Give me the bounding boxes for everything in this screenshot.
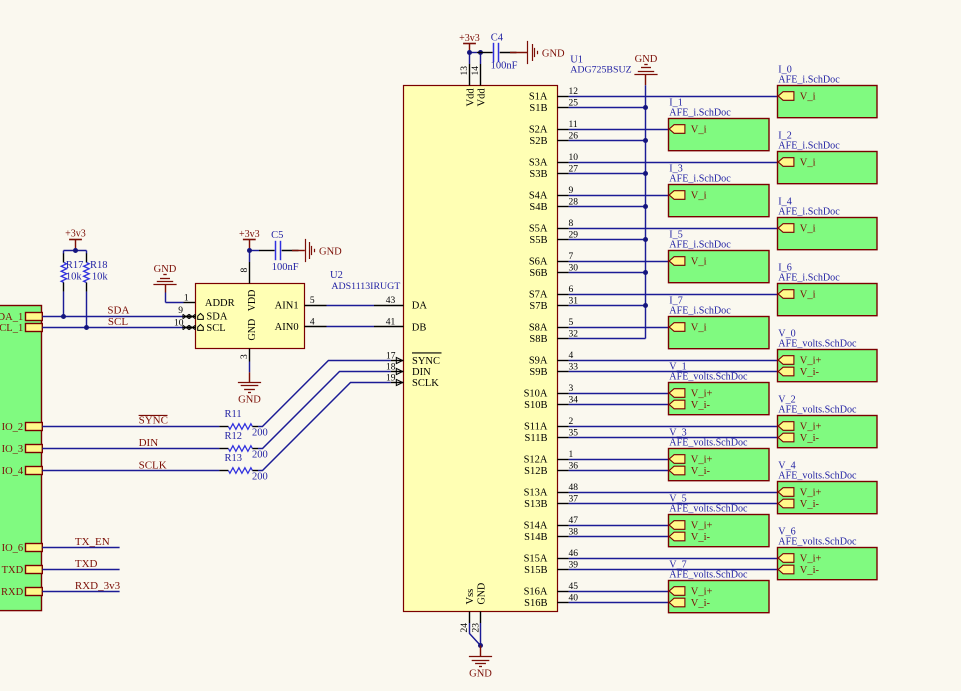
- svg-text:13: 13: [460, 66, 470, 76]
- +3v3 power port (U2): [239, 229, 260, 240]
- svg-text:GND: GND: [247, 319, 258, 341]
- svg-text:DIN: DIN: [139, 437, 159, 449]
- wire to R17 top: [63, 251, 65, 254]
- U1 pin 7 S6A: [529, 252, 574, 267]
- U1 pin 47 S14A: [524, 516, 579, 531]
- wire +3v3 to C5: [250, 250, 260, 252]
- svg-text:V_i+: V_i+: [800, 553, 822, 564]
- wire S6B to GND bus: [569, 272, 646, 274]
- resistor R12: [219, 446, 258, 452]
- svg-text:S11A: S11A: [524, 421, 548, 432]
- wire TX_EN stub: [42, 547, 119, 549]
- ground label: [469, 669, 492, 680]
- U1 pin 11 S2A: [529, 120, 578, 135]
- U1 pin 26 S2B: [529, 132, 578, 147]
- svg-text:C5: C5: [271, 230, 283, 241]
- sheet symbol V_1 (AFE_volts.SchDoc): [669, 383, 770, 415]
- svg-text:ADS1113IRUGT: ADS1113IRUGT: [331, 281, 400, 292]
- ground (U1): [469, 657, 492, 667]
- svg-text:11: 11: [569, 120, 578, 130]
- svg-text:24: 24: [460, 623, 470, 633]
- svg-text:TXD: TXD: [75, 558, 98, 570]
- svg-text:AFE_i.SchDoc: AFE_i.SchDoc: [669, 174, 731, 185]
- svg-text:8: 8: [240, 268, 250, 273]
- wire +3v3 to C4: [470, 52, 478, 54]
- sheet designator V_2: [778, 395, 795, 406]
- U1 pin 8 S5A: [529, 219, 574, 234]
- sheet port V_i of I_2: [778, 157, 815, 168]
- svg-text:S13B: S13B: [524, 499, 547, 510]
- svg-text:GND: GND: [477, 583, 488, 605]
- multiplexer U1 body: [404, 86, 558, 612]
- U1 value ADG725BSUZ: [570, 64, 631, 75]
- sheet filename AFE_i.SchDoc: [669, 174, 731, 185]
- svg-text:S7A: S7A: [529, 289, 548, 300]
- sheet filename AFE_i.SchDoc: [778, 75, 840, 86]
- svg-text:V_i+: V_i+: [691, 586, 713, 597]
- sheet filename AFE_i.SchDoc: [669, 108, 731, 119]
- svg-text:GND: GND: [635, 54, 658, 65]
- sheet port V_i of I_1: [669, 124, 706, 135]
- sheet port V_i+ of V_6: [778, 553, 821, 564]
- U2 pin 5 AIN1: [275, 296, 327, 312]
- svg-text:AFE_i.SchDoc: AFE_i.SchDoc: [778, 207, 840, 218]
- svg-text:S16B: S16B: [524, 598, 547, 609]
- svg-text:V_i: V_i: [691, 190, 707, 201]
- sheet filename AFE_volts.SchDoc: [669, 570, 748, 581]
- sheet filename AFE_volts.SchDoc: [778, 405, 857, 416]
- sheet port V_i+ of V_1: [669, 388, 712, 399]
- svg-text:S10A: S10A: [524, 388, 548, 399]
- U1 pin 33 S9B: [529, 363, 578, 378]
- junction R18/SCL: [84, 325, 89, 330]
- svg-text:V_i-: V_i-: [691, 400, 711, 411]
- svg-text:IO_4: IO_4: [2, 466, 24, 477]
- ground (ADDR, inverted earth): [153, 275, 176, 285]
- sheet designator V_0: [778, 329, 795, 340]
- U1 pin 45 S16A: [524, 582, 579, 597]
- wire GND bus vertical: [645, 85, 647, 338]
- svg-text:SDA: SDA: [107, 305, 129, 317]
- U1 pin 2 S11A: [524, 417, 574, 432]
- sheet designator V_4: [778, 461, 795, 472]
- sheet filename AFE_volts.SchDoc: [778, 537, 857, 548]
- U1 pin 6 S7A: [529, 285, 574, 300]
- ground label: [154, 264, 177, 275]
- svg-text:ADG725BSUZ: ADG725BSUZ: [570, 64, 631, 75]
- sheet port V_i of I_0: [778, 91, 815, 102]
- svg-text:V_i+: V_i+: [691, 454, 713, 465]
- wire S3B to GND bus: [569, 173, 646, 175]
- wire +3v3 stem: [75, 240, 77, 251]
- wire Vdd pin 14: [480, 53, 482, 65]
- wire TXD stub: [42, 569, 119, 571]
- svg-text:R17: R17: [66, 260, 84, 271]
- junction R17/SDA: [61, 314, 66, 319]
- sheet port V_i+ of V_2: [778, 421, 821, 432]
- wire SCLK net from IO pin: [42, 470, 219, 472]
- wire S2A to I_1 port: [569, 129, 669, 131]
- svg-text:S6B: S6B: [529, 268, 547, 279]
- wire S11A to V_2 port V_i+: [569, 426, 778, 428]
- svg-text:S16A: S16A: [524, 586, 548, 597]
- U1 pin 23 GND: [471, 583, 487, 633]
- ground (C4, sideways): [528, 41, 538, 64]
- sheet port V_i+ of V_0: [778, 355, 821, 366]
- svg-text:AIN1: AIN1: [275, 300, 299, 311]
- sheet entry IO_6: [2, 543, 43, 554]
- U1 pin 12 S1A: [529, 87, 578, 102]
- svg-text:V_i: V_i: [800, 91, 816, 102]
- wire S3A to I_2 port: [569, 162, 778, 164]
- wire SCL net: [42, 327, 183, 329]
- U2 designator: [330, 270, 343, 281]
- svg-text:IO_2: IO_2: [2, 422, 24, 433]
- U2 pin 3 GND: [240, 319, 258, 362]
- svg-text:R13: R13: [225, 453, 243, 464]
- U1 pin 43 DA: [374, 296, 427, 312]
- sheet symbol V_6 (AFE_volts.SchDoc): [778, 548, 878, 580]
- svg-text:V_i+: V_i+: [800, 487, 822, 498]
- svg-text:12: 12: [569, 87, 579, 97]
- wire RXD_3v3 stub: [42, 591, 119, 593]
- net label SYNC (overline): [139, 415, 168, 427]
- svg-text:S12A: S12A: [524, 454, 548, 465]
- wire pin24 to ground: [470, 623, 481, 646]
- svg-text:TXD: TXD: [2, 565, 24, 576]
- U2 pin 1 ADDR: [184, 294, 235, 309]
- svg-text:C4: C4: [491, 33, 504, 44]
- svg-text:AFE_i.SchDoc: AFE_i.SchDoc: [778, 141, 840, 152]
- resistor R18: [84, 253, 90, 291]
- sheet filename AFE_volts.SchDoc: [778, 471, 857, 482]
- U1 pin 31 S7B: [529, 297, 578, 312]
- R12 label: [225, 431, 268, 461]
- svg-text:DIN: DIN: [412, 367, 431, 378]
- net label SCLK: [139, 460, 167, 472]
- C4 value 100nF: [491, 60, 518, 71]
- wire S15B to V_6 port V_i-: [569, 569, 778, 571]
- sheet symbol I_0 (AFE_i.SchDoc): [778, 86, 878, 118]
- junction S2B/bus: [643, 138, 648, 143]
- svg-text:AFE_i.SchDoc: AFE_i.SchDoc: [669, 240, 731, 251]
- svg-text:S5A: S5A: [529, 223, 548, 234]
- svg-text:IO_6: IO_6: [2, 543, 24, 554]
- wire S7A to I_6 port: [569, 294, 778, 296]
- ground (top GND port for S-B bus): [634, 65, 657, 75]
- sheet entry IO_2: [2, 422, 43, 433]
- sheet entry TXD: [2, 565, 43, 576]
- sheet designator I_1: [669, 98, 682, 109]
- svg-text:1: 1: [184, 294, 189, 304]
- wire S12A to V_3 port V_i+: [569, 459, 669, 461]
- sheet designator I_4: [778, 197, 791, 208]
- svg-text:AFE_volts.SchDoc: AFE_volts.SchDoc: [778, 405, 857, 416]
- svg-text:+3v3: +3v3: [239, 229, 260, 240]
- sheet designator I_6: [778, 263, 791, 274]
- svg-text:IO_3: IO_3: [2, 444, 24, 455]
- sheet port V_i- of V_5: [669, 532, 710, 543]
- sheet symbol V_3 (AFE_volts.SchDoc): [669, 449, 770, 481]
- svg-text:10k: 10k: [66, 272, 83, 283]
- sheet filename AFE_volts.SchDoc: [669, 372, 748, 383]
- sheet symbol I_3 (AFE_i.SchDoc): [669, 185, 770, 217]
- svg-text:1: 1: [569, 450, 574, 460]
- sheet port V_i of I_6: [778, 289, 815, 300]
- svg-text:DB: DB: [412, 322, 427, 333]
- svg-text:14: 14: [471, 66, 481, 76]
- U2 pin 10 SCL: [174, 318, 226, 334]
- svg-text:V_i: V_i: [691, 322, 707, 333]
- sheet designator V_3: [669, 428, 686, 439]
- wire to R18 top: [86, 251, 88, 254]
- U1 pin 29 S5B: [529, 231, 578, 246]
- sheet filename AFE_volts.SchDoc: [778, 339, 857, 350]
- wire S4B to GND bus: [569, 206, 646, 208]
- svg-text:47: 47: [569, 516, 579, 526]
- svg-text:AFE_volts.SchDoc: AFE_volts.SchDoc: [778, 537, 857, 548]
- svg-text:200: 200: [252, 471, 268, 482]
- svg-text:AFE_volts.SchDoc: AFE_volts.SchDoc: [778, 339, 857, 350]
- sheet symbol I_2 (AFE_i.SchDoc): [778, 152, 878, 184]
- sheet entry SCL_1: [0, 323, 42, 334]
- wire ground stem (U1): [480, 646, 482, 657]
- svg-text:DA: DA: [412, 301, 428, 312]
- U1 pin 5 S8A: [529, 318, 574, 333]
- U1 pin 14 Vdd: [471, 64, 487, 107]
- svg-text:S11B: S11B: [525, 433, 548, 444]
- svg-text:10: 10: [174, 318, 184, 328]
- wire R18 to SCL: [86, 292, 88, 328]
- U2 pin 4 AIN0: [275, 318, 327, 333]
- sheet designator I_3: [669, 164, 682, 175]
- junction S4B/bus: [643, 204, 648, 209]
- wire ADDR ground stem: [165, 285, 167, 293]
- wire S2B to GND bus: [569, 140, 646, 142]
- sheet filename AFE_i.SchDoc: [778, 273, 840, 284]
- capacitor C4: [477, 43, 517, 62]
- U1 pin 34 S10B: [524, 396, 578, 411]
- svg-text:5: 5: [310, 296, 315, 306]
- C5 designator: [271, 230, 283, 241]
- sheet port V_i- of V_7: [669, 598, 710, 609]
- svg-text:200: 200: [252, 427, 268, 438]
- wire +3v3 to U2 VDD pin: [249, 251, 251, 263]
- svg-text:SCL_1: SCL_1: [0, 323, 23, 334]
- svg-text:S14A: S14A: [524, 520, 548, 531]
- svg-text:S12B: S12B: [524, 466, 547, 477]
- svg-text:S10B: S10B: [524, 400, 547, 411]
- sheet filename AFE_i.SchDoc: [778, 207, 840, 218]
- ground label: [635, 54, 658, 65]
- svg-text:V_i-: V_i-: [800, 565, 820, 576]
- U1 pin 35 S11B: [525, 429, 579, 444]
- wire SYNC to U1: [258, 361, 391, 427]
- svg-text:U2: U2: [330, 270, 343, 281]
- wire R17 to SDA: [63, 292, 65, 317]
- wire S9A to V_0 port V_i+: [569, 360, 778, 362]
- svg-text:GND: GND: [154, 264, 177, 275]
- sheet port V_i+ of V_3: [669, 454, 712, 465]
- svg-text:Vdd: Vdd: [465, 88, 476, 107]
- sheet port V_i- of V_0: [778, 367, 819, 378]
- svg-text:S4A: S4A: [529, 190, 548, 201]
- junction S5B/bus: [643, 237, 648, 242]
- sheet port V_i- of V_1: [669, 400, 710, 411]
- +3v3 power port (C4): [459, 33, 480, 44]
- wire S8B to GND bus: [569, 338, 646, 340]
- U1 pin 40 S16B: [524, 594, 578, 609]
- capacitor C5: [259, 241, 299, 260]
- sheet symbol V_0 (AFE_volts.SchDoc): [778, 350, 878, 382]
- R17 label: [66, 260, 84, 283]
- svg-text:+3v3: +3v3: [65, 229, 86, 240]
- wire Vdd pin 13: [469, 53, 471, 65]
- net label TXD: [75, 558, 98, 570]
- sheet symbol I_5 (AFE_i.SchDoc): [669, 251, 770, 283]
- sheet symbol V_4 (AFE_volts.SchDoc): [778, 482, 878, 514]
- R11 label: [225, 409, 268, 439]
- svg-text:3: 3: [569, 384, 574, 394]
- svg-text:S5B: S5B: [529, 235, 547, 246]
- wire S10A to V_1 port V_i+: [569, 393, 669, 395]
- svg-text:4: 4: [310, 318, 315, 328]
- junction S7B/bus: [643, 303, 648, 308]
- svg-text:AFE_i.SchDoc: AFE_i.SchDoc: [778, 273, 840, 284]
- sheet designator V_5: [669, 494, 686, 505]
- svg-text:45: 45: [569, 582, 579, 592]
- wire S12B to V_3 port V_i-: [569, 470, 669, 472]
- svg-text:SDA_1: SDA_1: [0, 312, 23, 323]
- U1 pin 32 S8B: [529, 330, 578, 345]
- svg-text:V_i+: V_i+: [800, 421, 822, 432]
- wire S5B to GND bus: [569, 239, 646, 241]
- svg-text:10k: 10k: [92, 272, 109, 283]
- ground label: [319, 246, 342, 257]
- ground (C5, sideways): [306, 239, 315, 262]
- U2 value ADS1113IRUGT: [331, 281, 400, 292]
- U1 pin 10 S3A: [529, 153, 578, 168]
- sheet port V_i of I_3: [669, 190, 706, 201]
- wire C4 to ground: [510, 52, 527, 54]
- wire S14B to V_5 port V_i-: [569, 536, 669, 538]
- sheet port V_i+ of V_5: [669, 520, 712, 531]
- svg-text:V_i: V_i: [691, 256, 707, 267]
- wire S10B to V_1 port V_i-: [569, 404, 669, 406]
- U1 pin 39 S15B: [524, 561, 578, 576]
- U1 pin 1 S12A: [524, 450, 574, 465]
- sheet port V_i- of V_2: [778, 433, 819, 444]
- svg-text:8: 8: [569, 219, 574, 229]
- U1 pin 19 SCLK: [386, 374, 439, 390]
- svg-text:S2B: S2B: [529, 136, 547, 147]
- svg-text:AFE_i.SchDoc: AFE_i.SchDoc: [778, 75, 840, 86]
- svg-text:3: 3: [240, 354, 250, 359]
- U1 pin 3 S10A: [524, 384, 574, 399]
- wire S16A to V_7 port V_i+: [569, 591, 669, 593]
- svg-text:TX_EN: TX_EN: [75, 536, 110, 548]
- svg-text:GND: GND: [238, 395, 261, 406]
- U1 pin 48 S13A: [524, 483, 579, 498]
- sheet designator I_7: [669, 296, 682, 307]
- U1 pin 38 S14B: [524, 528, 578, 543]
- C5 value 100nF: [272, 262, 299, 273]
- svg-text:S7B: S7B: [529, 301, 547, 312]
- U1 pin 28 S4B: [529, 198, 578, 213]
- sheet entry IO_3: [2, 444, 43, 455]
- U1 designator: [570, 54, 583, 65]
- wire S11B to V_2 port V_i-: [569, 437, 778, 439]
- svg-text:SCLK: SCLK: [139, 460, 167, 472]
- svg-text:S15B: S15B: [524, 565, 547, 576]
- +3v3 power port (pull-ups): [65, 229, 86, 240]
- sheet filename AFE_volts.SchDoc: [669, 438, 748, 449]
- sheet filename AFE_i.SchDoc: [669, 240, 731, 251]
- U1 pin 9 S4A: [529, 186, 574, 201]
- svg-text:V_i: V_i: [691, 124, 707, 135]
- svg-text:S9A: S9A: [529, 355, 548, 366]
- svg-text:7: 7: [569, 252, 574, 262]
- svg-text:Vdd: Vdd: [476, 88, 487, 107]
- U1 pin 27 S3B: [529, 165, 578, 180]
- svg-text:SYNC: SYNC: [412, 356, 440, 367]
- sheet designator V_6: [778, 527, 795, 538]
- svg-text:9: 9: [569, 186, 574, 196]
- net label SCL: [108, 316, 128, 328]
- junction pin14/C4: [478, 50, 483, 55]
- junction +3v3/pull-ups: [73, 248, 78, 253]
- svg-text:S8A: S8A: [529, 322, 548, 333]
- svg-text:AFE_i.SchDoc: AFE_i.SchDoc: [669, 108, 731, 119]
- svg-text:48: 48: [569, 483, 579, 493]
- sheet symbol V_7 (AFE_volts.SchDoc): [669, 581, 770, 613]
- svg-text:SCL: SCL: [108, 316, 128, 328]
- junction +3v3/C5/VDD: [247, 248, 252, 253]
- net label DIN: [139, 437, 159, 449]
- svg-text:10: 10: [569, 153, 579, 163]
- wire S7B to GND bus: [569, 305, 646, 307]
- wire SDA net: [42, 316, 183, 318]
- svg-text:V_i: V_i: [800, 223, 816, 234]
- wire C5 to ground: [292, 250, 305, 252]
- svg-text:6: 6: [569, 285, 574, 295]
- wire S16B to V_7 port V_i-: [569, 602, 669, 604]
- svg-text:VDD: VDD: [247, 290, 258, 312]
- sheet port V_i of I_4: [778, 223, 815, 234]
- wire S6A to I_5 port: [569, 261, 669, 263]
- sheet port V_i of I_5: [669, 256, 706, 267]
- R13 label: [225, 453, 268, 483]
- wire +3v3 stem (C4): [469, 44, 471, 53]
- R18 label: [90, 260, 108, 283]
- sheet port V_i of I_7: [669, 322, 706, 333]
- sheet filename AFE_volts.SchDoc: [669, 504, 748, 515]
- wire +3v3 stem (U2): [249, 240, 251, 251]
- sheet designator I_5: [669, 230, 682, 241]
- sheet symbol I_6 (AFE_i.SchDoc): [778, 284, 878, 316]
- U1 pin 46 S15A: [524, 549, 579, 564]
- wire S13B to V_4 port V_i-: [569, 503, 778, 505]
- sheet entry IO_4: [2, 466, 43, 477]
- svg-text:S15A: S15A: [524, 553, 548, 564]
- svg-text:4: 4: [569, 351, 574, 361]
- svg-text:Vss: Vss: [465, 589, 476, 605]
- svg-text:+3v3: +3v3: [459, 33, 480, 44]
- sheet entry SDA_1: [0, 312, 42, 323]
- ground (U2): [238, 383, 261, 393]
- svg-text:V_i: V_i: [800, 289, 816, 300]
- svg-text:17: 17: [386, 351, 396, 361]
